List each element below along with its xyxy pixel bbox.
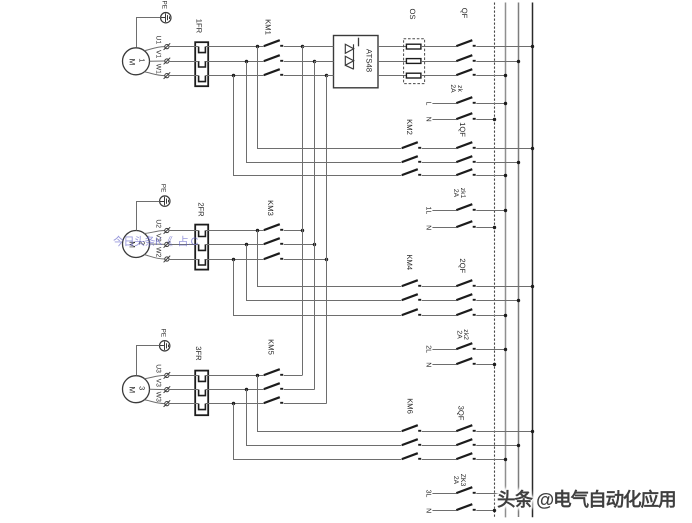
- wire KM1 bus to ATS48 input 1: [302, 46, 333, 48]
- wire drop motor 1 phase 3 to bypass contactor: [234, 76, 402, 176]
- junction node phase 3 motor 3 (drop to bypass): [232, 402, 235, 405]
- wire drop motor 1 phase 2 to bypass contactor: [247, 62, 402, 163]
- label PE motor 1: [161, 1, 168, 10]
- label N: [424, 225, 431, 230]
- wire ATS48 output 2 to fuse OS: [378, 61, 406, 63]
- label zk 2A: [449, 84, 463, 93]
- tap switch N: [456, 358, 475, 364]
- terminal U2: [164, 227, 171, 234]
- wire motor 1 lead W: [144, 72, 165, 76]
- wire motor 3 lead V: [150, 388, 165, 390]
- motor M2 label M: [127, 241, 136, 248]
- label 2QF: [458, 258, 467, 273]
- svg-text:U3: U3: [154, 364, 161, 373]
- wire QF pole 3 to busbar: [476, 75, 506, 77]
- junction node 3QF pole 3 on busbar: [504, 458, 507, 461]
- svg-text:V3: V3: [154, 379, 161, 388]
- wire 2FR to KM3 pole 3: [205, 259, 263, 261]
- junction node 1L on L1: [504, 209, 507, 212]
- junction node KM3 pole 3 on vertical: [325, 258, 328, 261]
- fuse OS phase 2: [406, 59, 421, 64]
- wire N to busbar N: [476, 119, 494, 121]
- wire V2 terminal to 2FR: [169, 244, 199, 246]
- svg-text:W3: W3: [154, 392, 161, 402]
- wire U3 terminal to 3FR: [169, 375, 199, 377]
- svg-text:2FR: 2FR: [197, 202, 206, 217]
- watermark bottom right: [497, 486, 676, 512]
- wire fuse OS to QF pole 1: [421, 46, 456, 48]
- junction node 3QF pole 1 on busbar: [531, 430, 534, 433]
- wire KM2 pole 1 to 1QF: [422, 148, 457, 150]
- breaker 2QF: [456, 280, 475, 315]
- wire W3 terminal to 3FR: [169, 403, 199, 405]
- svg-text:KM6: KM6: [406, 398, 415, 414]
- junction node KM3 pole 2 on vertical: [313, 243, 316, 246]
- wire motor 3 lead U: [144, 375, 165, 378]
- PE earth terminal motor 3: [160, 341, 170, 351]
- svg-text:L: L: [424, 102, 431, 106]
- label U3: [154, 364, 161, 373]
- wire motor 2 lead U: [144, 231, 165, 234]
- junction node L on L1: [504, 102, 507, 105]
- PE earth terminal motor 1: [161, 13, 171, 23]
- svg-text:2A: 2A: [456, 330, 463, 339]
- svg-text:KM1: KM1: [264, 19, 273, 35]
- fuse group OS enclosure (dashed): [404, 39, 425, 84]
- svg-text:W2: W2: [154, 247, 161, 257]
- wire 2QF pole 2 to busbar: [476, 300, 519, 302]
- junction node QF pole 3 on busbar: [504, 74, 507, 77]
- label U1: [154, 35, 161, 44]
- junction node phase 1 motor 2 (drop to bypass): [256, 229, 259, 232]
- wire W1 terminal to 1FR: [169, 75, 199, 77]
- label PE motor 3: [160, 329, 167, 338]
- junction node phase 2 motor 3 (drop to bypass): [245, 388, 248, 391]
- thermal relay 3FR body: [195, 371, 208, 416]
- wire 3QF pole 2 to busbar: [476, 445, 519, 447]
- motor M1 label 1: [138, 58, 147, 62]
- label N: [424, 362, 431, 367]
- label W2: [154, 247, 161, 257]
- label KM3: [266, 200, 275, 216]
- motor M1 circle: [123, 48, 150, 75]
- wire motor 1 lead U: [144, 47, 165, 51]
- wire V3 terminal to 3FR: [169, 389, 199, 391]
- label zk1 2A: [452, 188, 466, 199]
- wire KM5 pole 2 to soft-starter bus: [284, 389, 315, 391]
- label V2: [154, 233, 161, 242]
- label KM6: [406, 398, 415, 414]
- wire drop motor 3 phase 2 to bypass contactor: [247, 390, 402, 446]
- junction node QF pole 1 on busbar: [531, 45, 534, 48]
- junction node 1QF pole 3 on busbar: [504, 174, 507, 177]
- svg-text:2L: 2L: [424, 345, 431, 353]
- wire motor 3 lead W: [144, 400, 165, 404]
- wire N to busbar N: [476, 227, 494, 229]
- wire soft-starter output vertical 3: [326, 76, 328, 404]
- wire QF pole 2 to busbar: [476, 61, 519, 63]
- motor M2 label 2: [138, 241, 147, 245]
- svg-text:1: 1: [138, 58, 147, 62]
- motor M2 circle: [123, 231, 150, 258]
- breaker 1QF: [456, 142, 475, 175]
- label 1QF: [458, 122, 467, 137]
- label KM2: [405, 119, 414, 135]
- junction node 3QF pole 2 on busbar: [517, 444, 520, 447]
- contactor KM5 (soft-start select): [264, 369, 283, 403]
- wire stub L: [432, 103, 456, 105]
- thermal relay 1FR body: [195, 42, 208, 86]
- label 3QF: [457, 406, 466, 421]
- tap switch 3L: [456, 487, 475, 493]
- tap switch N: [456, 113, 475, 119]
- svg-text:3FR: 3FR: [194, 346, 203, 361]
- wire drop motor 2 phase 1 to bypass contactor: [258, 231, 402, 287]
- svg-text:1FR: 1FR: [194, 19, 203, 34]
- wire soft-starter output vertical 2: [314, 61, 316, 390]
- wire KM1 bus to ATS48 input 3: [326, 75, 333, 77]
- svg-text:KM4: KM4: [405, 254, 414, 270]
- svg-text:KM2: KM2: [405, 119, 414, 135]
- label 2L: [424, 345, 431, 353]
- watermark blue (over motor 2): [113, 233, 198, 249]
- svg-text:ATS48: ATS48: [364, 49, 373, 72]
- junction node N on busbar N: [493, 363, 496, 366]
- thermal relay 2FR body: [195, 225, 208, 270]
- junction node N on busbar N: [493, 509, 496, 512]
- fuse OS phase 1: [406, 44, 421, 49]
- tap switch N: [456, 221, 475, 227]
- motor M3 circle: [123, 376, 150, 403]
- busbar L3: [532, 3, 534, 518]
- junction node phase 2 motor 2 (drop to bypass): [245, 243, 248, 246]
- svg-text:QF: QF: [460, 8, 469, 19]
- label zk2 2A: [456, 329, 470, 340]
- svg-text:M: M: [127, 59, 136, 66]
- label KM5: [266, 339, 275, 355]
- svg-text:U1: U1: [154, 35, 161, 44]
- busbar N (dashed neutral): [494, 3, 496, 517]
- wire 1QF pole 2 to busbar: [476, 162, 519, 164]
- wire stub N: [432, 364, 456, 366]
- junction node 2L on L1: [504, 348, 507, 351]
- wire N to busbar N: [476, 510, 494, 512]
- junction node phase 1 motor 3 (drop to bypass): [256, 374, 259, 377]
- wire N to busbar N: [476, 364, 494, 366]
- wire 1FR to KM1 pole 3: [205, 75, 263, 77]
- soft starter U1 ATS48 body: [334, 36, 379, 88]
- junction node KM3 pole 1 on vertical: [301, 229, 304, 232]
- terminal V1: [164, 58, 171, 65]
- label U2: [154, 219, 161, 228]
- label L: [424, 102, 431, 106]
- wire drop motor 3 phase 1 to bypass contactor: [258, 376, 402, 432]
- svg-text:1QF: 1QF: [458, 122, 467, 137]
- motor M3 label 3: [138, 386, 147, 390]
- wire QF pole 1 to busbar: [476, 46, 532, 48]
- junction node phase 1 motor 1 (drop to bypass): [256, 45, 259, 48]
- label ATS48: [364, 49, 373, 72]
- wire KM4 pole 1 to 2QF: [422, 286, 457, 288]
- tap switch 2L: [456, 343, 475, 349]
- svg-text:PE: PE: [161, 1, 168, 10]
- svg-text:N: N: [424, 225, 431, 230]
- wire 1FR to KM1 pole 2: [205, 61, 263, 63]
- wire KM6 pole 1 to 3QF: [422, 431, 457, 433]
- wire stub N: [432, 227, 456, 229]
- svg-text:V1: V1: [154, 50, 161, 59]
- wire 1QF pole 1 to busbar: [476, 148, 532, 150]
- wire KM5 pole 3 to soft-starter bus: [284, 403, 327, 405]
- motor M1 label M: [127, 59, 136, 66]
- junction node N on busbar N: [493, 226, 496, 229]
- label OS: [408, 9, 417, 20]
- junction node 3L on L1: [504, 492, 507, 495]
- wire 1L to busbar L1: [476, 210, 506, 212]
- label KM4: [405, 254, 414, 270]
- svg-text:3QF: 3QF: [457, 406, 466, 421]
- label 2FR: [197, 202, 206, 217]
- wire drop motor 2 phase 3 to bypass contactor: [234, 260, 402, 316]
- tap switch 1L: [456, 204, 475, 210]
- wire KM6 pole 3 to 3QF: [422, 459, 457, 461]
- wire 3FR to KM5 pole 2: [205, 389, 263, 391]
- wire 2FR to KM3 pole 2: [205, 244, 263, 246]
- wire U1 terminal to 1FR: [169, 46, 199, 48]
- busbar L1: [505, 3, 507, 518]
- junction node KM1 pole 1 on vertical: [301, 45, 304, 48]
- svg-text:3L: 3L: [424, 490, 431, 498]
- wire 2QF pole 1 to busbar: [476, 286, 532, 288]
- junction node 2QF pole 2 on busbar: [517, 299, 520, 302]
- label KM1: [264, 19, 273, 35]
- wire U2 terminal to 2FR: [169, 230, 199, 232]
- label N: [424, 117, 431, 122]
- wire KM2 pole 2 to 1QF: [422, 162, 457, 164]
- tap switch N: [456, 504, 475, 510]
- wire 3QF pole 1 to busbar: [476, 431, 532, 433]
- terminal W1: [164, 72, 171, 79]
- junction node phase 3 motor 2 (drop to bypass): [232, 258, 235, 261]
- junction node QF pole 2 on busbar: [517, 60, 520, 63]
- wire 1QF pole 3 to busbar: [476, 175, 506, 177]
- label N: [424, 508, 431, 513]
- label 1FR: [194, 19, 203, 34]
- terminal U3: [164, 372, 171, 379]
- svg-text:2A: 2A: [449, 84, 456, 93]
- wire L to busbar L1: [476, 103, 506, 105]
- tap switch L: [456, 97, 475, 103]
- wire ATS48 output 3 to fuse OS: [378, 75, 406, 77]
- wire motor 1 frame to PE: [137, 18, 161, 48]
- junction node KM1 pole 2 on vertical: [313, 60, 316, 63]
- wire KM1 pole 2 to soft-starter bus: [284, 61, 315, 63]
- wire stub N: [432, 510, 456, 512]
- svg-text:KM3: KM3: [266, 200, 275, 216]
- wire V1 terminal to 1FR: [169, 61, 199, 63]
- wire KM4 pole 3 to 2QF: [422, 315, 457, 317]
- label QF: [460, 8, 469, 19]
- wire 3QF pole 3 to busbar: [476, 459, 506, 461]
- wire drop motor 2 phase 2 to bypass contactor: [247, 245, 402, 301]
- label 3FR: [194, 346, 203, 361]
- svg-text:PE: PE: [160, 184, 167, 193]
- svg-text:W1: W1: [154, 64, 161, 74]
- breaker 3QF: [456, 425, 475, 459]
- svg-text:OS: OS: [408, 9, 417, 20]
- wire stub 2L: [432, 349, 456, 351]
- label W1: [154, 64, 161, 74]
- busbar L2: [518, 3, 520, 518]
- svg-text:M: M: [127, 386, 136, 393]
- wire motor 2 lead V: [150, 243, 165, 245]
- bypass contactor KM2: [402, 142, 421, 175]
- wire stub N: [432, 119, 456, 121]
- terminal W2: [164, 256, 171, 263]
- junction node phase 2 motor 1 (drop to bypass): [245, 60, 248, 63]
- svg-text:KM5: KM5: [266, 339, 275, 355]
- svg-text:3: 3: [138, 386, 147, 390]
- wire motor 2 lead W: [144, 255, 165, 259]
- wire soft-starter output vertical 1: [302, 47, 304, 376]
- wire KM2 pole 3 to 1QF: [422, 175, 457, 177]
- contactor KM3 (soft-start select): [264, 224, 283, 259]
- terminal W3: [164, 400, 171, 407]
- terminal V3: [164, 386, 171, 393]
- wire 3L to busbar L1: [476, 493, 506, 495]
- label 3L: [424, 490, 431, 498]
- wire KM4 pole 2 to 2QF: [422, 300, 457, 302]
- wire drop motor 1 phase 1 to bypass contactor: [258, 47, 402, 149]
- wire KM5 pole 1 to soft-starter bus: [284, 375, 303, 377]
- wire KM1 pole 3 to soft-starter bus: [284, 75, 327, 77]
- svg-text:1L: 1L: [424, 207, 431, 215]
- svg-text:PE: PE: [160, 329, 167, 338]
- label 1L: [424, 207, 431, 215]
- wire 2QF pole 3 to busbar: [476, 315, 506, 317]
- wire KM6 pole 2 to 3QF: [422, 445, 457, 447]
- junction node KM1 pole 3 on vertical: [325, 74, 328, 77]
- wire 2FR to KM3 pole 1: [205, 230, 263, 232]
- svg-text:2A: 2A: [452, 476, 459, 485]
- wire 1FR to KM1 pole 1: [205, 46, 263, 48]
- soft starter thyristor symbol: [345, 38, 358, 69]
- wire KM1 bus to ATS48 input 2: [314, 61, 333, 63]
- bypass contactor KM6: [402, 425, 421, 459]
- junction node 2QF pole 1 on busbar: [531, 285, 534, 288]
- wire 3FR to KM5 pole 1: [205, 375, 263, 377]
- wire KM3 pole 1 to soft-starter bus: [284, 230, 303, 232]
- wire drop motor 3 phase 3 to bypass contactor: [234, 404, 402, 460]
- label V1: [154, 50, 161, 59]
- motor M3 label M: [127, 386, 136, 393]
- svg-text:2QF: 2QF: [458, 258, 467, 273]
- label PE motor 2: [160, 184, 167, 193]
- svg-text:N: N: [424, 362, 431, 367]
- wire ATS48 output 1 to fuse OS: [378, 46, 406, 48]
- fuse OS phase 3: [406, 73, 421, 78]
- wire KM1 pole 1 to soft-starter bus: [284, 46, 303, 48]
- main breaker QF: [456, 40, 475, 75]
- wire KM3 pole 2 to soft-starter bus: [284, 244, 315, 246]
- svg-text:N: N: [424, 508, 431, 513]
- wire 2L to busbar L1: [476, 349, 506, 351]
- PE earth terminal motor 2: [160, 196, 170, 206]
- svg-text:2A: 2A: [452, 189, 459, 198]
- wire motor 1 lead V: [150, 60, 165, 62]
- junction node 1QF pole 2 on busbar: [517, 161, 520, 164]
- svg-text:U2: U2: [154, 219, 161, 228]
- wire fuse OS to QF pole 3: [421, 75, 456, 77]
- wire KM3 pole 3 to soft-starter bus: [284, 259, 327, 261]
- wire motor 3 frame to PE: [137, 346, 160, 376]
- wire W2 terminal to 2FR: [169, 259, 199, 261]
- contactor KM1 (soft-start select): [264, 40, 283, 75]
- label ZK3 2A: [452, 474, 466, 487]
- bypass contactor KM4: [402, 280, 421, 315]
- terminal V2: [164, 241, 171, 248]
- junction node phase 3 motor 1 (drop to bypass): [232, 74, 235, 77]
- label W3: [154, 392, 161, 402]
- junction node 1QF pole 1 on busbar: [531, 147, 534, 150]
- wire fuse OS to QF pole 2: [421, 61, 456, 63]
- junction node 2QF pole 3 on busbar: [504, 314, 507, 317]
- terminal U1: [164, 43, 171, 50]
- label V3: [154, 379, 161, 388]
- junction node N on busbar N: [493, 118, 496, 121]
- wire 3FR to KM5 pole 3: [205, 403, 263, 405]
- wire stub 1L: [432, 210, 456, 212]
- svg-text:N: N: [424, 117, 431, 122]
- wire stub 3L: [432, 493, 456, 495]
- wire motor 2 frame to PE: [137, 202, 160, 231]
